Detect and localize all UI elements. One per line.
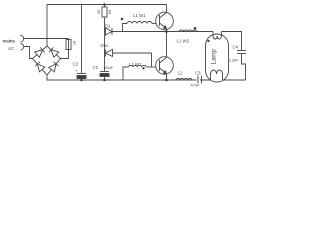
- wire lamp to C4: [222, 32, 242, 51]
- svg-text:mains: mains: [3, 39, 16, 44]
- svg-text:D1: D1: [105, 24, 111, 29]
- svg-text:R0: R0: [72, 41, 76, 45]
- lamp pin top-left: [212, 32, 214, 37]
- bridge diode lower-right: [49, 62, 59, 72]
- svg-text:L1 W2: L1 W2: [129, 62, 142, 67]
- svg-text:C4: C4: [233, 45, 239, 50]
- wire AC bottom: [24, 47, 33, 59]
- svg-text:L1 W3: L1 W3: [177, 39, 190, 44]
- svg-text:L2: L2: [178, 70, 183, 75]
- capacitor C2 electrolytic: [81, 5, 83, 74]
- inductor L2: [176, 79, 192, 81]
- transistor TR1: [156, 12, 174, 30]
- diode Dac: [104, 32, 106, 54]
- wire bottom rail DC-: [47, 75, 246, 80]
- transistor TR2: [156, 57, 174, 75]
- resistor R1: [104, 5, 106, 8]
- lamp tube: [206, 34, 229, 82]
- svg-text:C1: C1: [93, 65, 99, 70]
- svg-text:R1: R1: [108, 10, 112, 15]
- svg-text:C2: C2: [73, 62, 79, 67]
- svg-text:Dac: Dac: [101, 43, 110, 48]
- lamp electrode dot: [207, 40, 209, 42]
- winding L1 W2: [123, 67, 129, 80]
- lamp filament top: [213, 36, 221, 39]
- winding L1 W3: [179, 30, 197, 32]
- svg-text:47nF: 47nF: [191, 83, 201, 88]
- svg-text:L1 W1: L1 W1: [133, 13, 146, 18]
- svg-text:C3: C3: [195, 70, 201, 75]
- svg-text:AC: AC: [8, 46, 14, 51]
- svg-text:+: +: [76, 68, 79, 73]
- diode D1: [106, 28, 113, 35]
- wire Dac to TR2 base: [151, 53, 153, 67]
- node TR2 emitter on rail: [165, 79, 168, 82]
- svg-text:10nF: 10nF: [104, 65, 114, 70]
- svg-text:Lamp: Lamp: [211, 48, 218, 64]
- phase dot W3: [194, 27, 197, 30]
- connector pin bottom: [21, 43, 24, 49]
- bridge rectifier frame: [33, 46, 61, 75]
- bridge diode upper-left: [35, 47, 45, 57]
- node TR1 emitter junction: [165, 30, 168, 33]
- wire mid rail: [105, 31, 214, 33]
- node C2 on rail: [80, 79, 83, 82]
- bridge diode lower-left: [35, 62, 45, 72]
- connector pin top: [21, 36, 24, 42]
- capacitor C3: [197, 76, 201, 84]
- wire AC top: [24, 38, 69, 40]
- node C1 on rail: [103, 79, 106, 82]
- lamp filament bottom: [211, 70, 223, 80]
- winding L1 W1: [123, 24, 128, 32]
- wire top rail DC+: [47, 4, 167, 6]
- bridge diode upper-right: [49, 47, 59, 57]
- mains label: [3, 39, 16, 51]
- svg-text:3.3nF: 3.3nF: [229, 58, 240, 63]
- capacitor C1: [104, 53, 106, 72]
- fuse R0: [61, 39, 69, 59]
- lamp pin top-right: [221, 32, 223, 37]
- wire bridge top to top rail: [46, 5, 48, 47]
- capacitor C4: [237, 50, 246, 52]
- phase dot W1: [121, 18, 124, 21]
- node R1 top: [103, 3, 106, 6]
- svg-text:1M: 1M: [97, 9, 101, 14]
- phase dot W2: [142, 67, 144, 69]
